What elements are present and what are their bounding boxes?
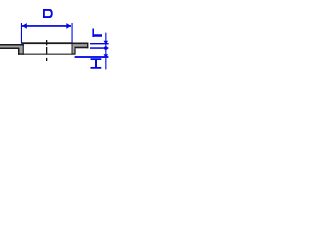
extension line C (part bottom, right): [75, 56, 109, 58]
arrowhead left (D): [22, 23, 27, 29]
extension line right (for D): [72, 23, 73, 43]
dot terminator on line B: [104, 46, 108, 50]
part cross-section left wall right outline: [23, 45, 24, 55]
arrowhead right (D): [66, 23, 71, 29]
background: [0, 0, 113, 74]
centerline dash 2: [46, 47, 47, 55]
dimension line D: [22, 25, 71, 27]
arrowhead down onto line C (H): [104, 54, 109, 58]
bottom edge line of bore (middle): [24, 54, 72, 55]
extension line B (flange bottom, right): [90, 47, 108, 49]
centerline dash 3: [46, 58, 47, 61]
label H (rotated 90deg): [91, 58, 102, 68]
centerline dash 1: [46, 40, 47, 45]
part cross-section right wall right outline: [74, 48, 75, 54]
part cross-section left wall bottom outline: [18, 53, 24, 54]
part cross-section right flange end outline: [87, 43, 88, 49]
part cross-section left flange grey fill: [0, 46, 23, 54]
part cross-section right flange top outline: [73, 43, 89, 45]
label T (rotated 90deg): [92, 29, 102, 38]
part cross-section left flange top outline: [0, 44, 24, 46]
part cross-section right wall bottom outline: [72, 53, 76, 54]
extension line A (flange top, right): [90, 43, 109, 44]
arrowhead down onto line A (T): [104, 41, 109, 45]
part cross-section right flange bottom outline: [75, 47, 89, 49]
part cross-section left flange bottom outline: [0, 48, 19, 50]
part cross-section right wall grey fill: [73, 44, 87, 54]
part cross-section right wall left outline: [72, 43, 73, 55]
extension line left (for D): [21, 23, 22, 44]
label D: [43, 9, 53, 18]
top edge line of bore (middle): [22, 42, 73, 44]
part cross-section left wall left outline: [18, 48, 20, 55]
dimension line vertical (T and H): [105, 33, 106, 70]
